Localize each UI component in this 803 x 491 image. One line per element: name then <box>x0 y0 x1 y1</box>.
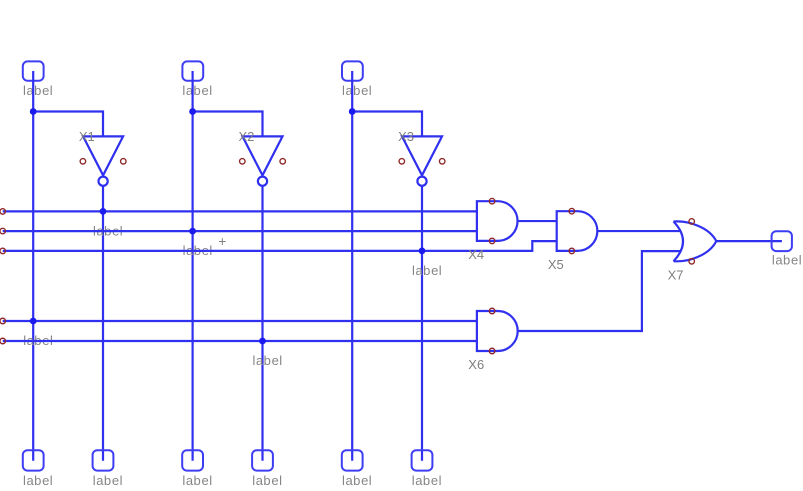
bottom port B6 <box>412 450 433 470</box>
svg-text:X3: X3 <box>398 129 414 144</box>
svg-text:X6: X6 <box>468 357 484 372</box>
wire W2 to X4 input 2 <box>3 230 477 232</box>
wire W4 open end <box>0 318 5 324</box>
output port <box>772 231 792 251</box>
svg-text:X1: X1 <box>79 129 95 144</box>
inverter X3 <box>402 136 442 185</box>
or-gate X7 pin circle bottom <box>689 259 695 265</box>
svg-text:label: label <box>252 473 282 488</box>
svg-text:X4: X4 <box>468 247 484 262</box>
wire X7 output to output port <box>716 240 782 242</box>
svg-text:label: label <box>412 473 442 488</box>
bottom port B5 <box>342 450 363 470</box>
svg-text:label: label <box>253 353 283 368</box>
and-gate X5 pin circle bottom <box>569 248 575 254</box>
and-gate X4 pin circle bottom <box>489 238 495 244</box>
and-gate X4 <box>477 201 518 241</box>
wire branch from V1 to X1 input <box>33 112 103 137</box>
and-gate X6 pin circle top <box>489 308 495 314</box>
svg-text:label: label <box>182 83 212 98</box>
node junction X3out-W3 <box>419 248 426 255</box>
svg-text:label: label <box>23 83 53 98</box>
wire W1 to X4 input 1 <box>3 210 477 212</box>
svg-text:label: label <box>412 263 442 278</box>
input port T3 <box>342 61 363 80</box>
svg-text:+: + <box>218 234 226 249</box>
node junction X1out-W1 <box>100 208 107 215</box>
inverter X1 pin circle left <box>80 159 86 165</box>
wire W5 to X6 input 2 <box>3 340 477 342</box>
inverter X2 pin circle right <box>280 159 286 165</box>
node junction X2out-W5 <box>259 338 266 345</box>
and-gate X5 <box>557 211 598 251</box>
wire W4 to X6 input 1 <box>3 320 477 322</box>
wire X4 output to X5 input 1 <box>518 220 557 222</box>
wire V2 vertical from T2 to bottom port B3 <box>192 71 194 461</box>
inverter X2 <box>243 136 283 185</box>
input port T2 <box>182 61 203 80</box>
wire W1 open end <box>0 209 5 215</box>
wire W3 to X5 input 2 <box>3 241 557 251</box>
svg-text:label: label <box>23 473 53 488</box>
wire X6 output riser to X7 input 2 <box>518 251 681 331</box>
node junction V2-X2 <box>189 108 196 115</box>
wire V3 vertical from T3 to bottom port B5 <box>351 71 353 461</box>
wire W2 open end <box>0 228 5 234</box>
bottom port B3 <box>182 450 203 470</box>
svg-text:label: label <box>93 473 123 488</box>
node junction V2-W2 <box>189 228 196 235</box>
svg-text:X5: X5 <box>548 257 564 272</box>
inverter X2 pin circle left <box>240 159 246 165</box>
and-gate X6 <box>477 311 518 351</box>
wire W5 open end <box>0 338 5 344</box>
svg-text:label: label <box>182 473 212 488</box>
wire X2 output vertical to bottom port B4 <box>261 186 263 461</box>
svg-text:X2: X2 <box>239 129 255 144</box>
svg-text:X7: X7 <box>668 267 684 282</box>
node junction V3-X3 <box>349 108 356 115</box>
input port T1 <box>23 61 44 80</box>
svg-text:label: label <box>772 253 802 268</box>
svg-text:label: label <box>342 83 372 98</box>
inverter X1 <box>83 136 123 185</box>
bottom port B2 <box>93 450 114 470</box>
and-gate X5 pin circle top <box>569 208 575 214</box>
node junction V1-X1 <box>30 108 37 115</box>
bottom port B4 <box>252 450 273 470</box>
wire X3 output vertical to bottom port B6 <box>421 186 423 461</box>
svg-text:label: label <box>342 473 372 488</box>
wire X1 output vertical to bottom port B2 <box>102 186 104 461</box>
wire branch from V2 to X2 input <box>193 112 263 137</box>
inverter X1 pin circle right <box>121 159 127 165</box>
and-gate X6 pin circle bottom <box>489 348 495 354</box>
node junction V1-W4 <box>30 318 37 325</box>
wire V1 vertical from T1 to bottom port B1 <box>32 71 34 461</box>
wire branch from V3 to X3 input <box>352 112 422 137</box>
or-gate X7 <box>674 221 717 261</box>
wire W3 open end <box>0 248 5 254</box>
or-gate X7 pin circle top <box>689 219 695 225</box>
wire X5 output to X7 input 1 <box>597 230 680 232</box>
inverter X3 pin circle left <box>399 159 405 165</box>
inverter X3 pin circle right <box>439 159 445 165</box>
bottom port B1 <box>23 450 44 470</box>
and-gate X4 pin circle top <box>489 198 495 204</box>
